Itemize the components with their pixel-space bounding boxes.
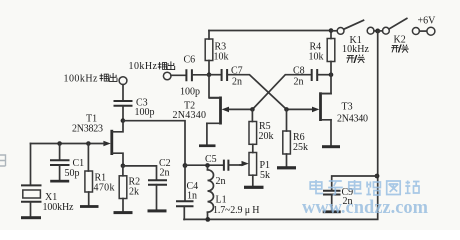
wire K1 right to junction <box>374 30 378 32</box>
capacitor C8 <box>293 66 317 88</box>
capacitor C1 <box>50 158 84 179</box>
wire source node to C2 <box>123 166 157 180</box>
left edge artifact mark <box>0 155 6 166</box>
resistor R3 <box>205 39 228 63</box>
svg-text:10k: 10k <box>214 52 229 63</box>
svg-text:100kHz: 100kHz <box>64 74 99 85</box>
svg-text:C6: C6 <box>184 55 196 66</box>
wire R6 top lead <box>286 109 288 131</box>
resistor R1 <box>85 171 115 194</box>
svg-text:2N4340: 2N4340 <box>173 110 207 121</box>
svg-text:100p: 100p <box>180 87 200 98</box>
wire C4 top lead <box>184 166 186 202</box>
wire R2 to ground <box>122 199 124 212</box>
wire C5 to P1 wiper <box>228 164 240 166</box>
wire C7 to X-cross to T3 gate <box>227 75 313 110</box>
transistor T3 2N4340 <box>312 92 368 124</box>
svg-text:100p: 100p <box>135 107 155 118</box>
wire rail to K1 contact <box>331 30 337 32</box>
label 开/关 (K1) <box>346 55 365 66</box>
wire R5 top lead <box>251 109 253 121</box>
watermark line 1 电子电路图站 <box>310 180 419 195</box>
label 开/关 (K2) <box>391 44 409 55</box>
resistor R2 <box>119 176 140 199</box>
svg-text:/: / <box>398 44 401 55</box>
wire P1 to ground <box>252 175 254 186</box>
wire K2 to +6V terminal <box>420 30 427 32</box>
svg-text:100kHz: 100kHz <box>43 202 75 213</box>
ground T2 <box>199 144 216 147</box>
svg-text:www.cndzz.com: www.cndzz.com <box>302 198 429 218</box>
resistor R6 <box>283 131 308 154</box>
ground R6 <box>277 166 296 169</box>
node top rail / K1 <box>329 28 334 33</box>
terminal 10kHz output <box>129 61 172 80</box>
ground R2 <box>114 211 133 214</box>
svg-text:T3: T3 <box>342 102 353 113</box>
terminal +6V <box>418 16 437 36</box>
node R4/C8/T3-drain <box>329 72 334 77</box>
inductor L1 <box>208 170 260 216</box>
ground T3 <box>322 145 340 148</box>
node R1 top <box>86 141 91 146</box>
svg-text:5k: 5k <box>260 170 270 181</box>
ground R1 <box>80 205 99 208</box>
wire R5 to P1 <box>252 144 254 152</box>
ground X1 <box>21 216 41 219</box>
wire tank node to C5 <box>185 164 224 166</box>
svg-text:10kHz: 10kHz <box>342 44 370 55</box>
wire terminal to C3 <box>122 85 124 101</box>
wire R1 top lead <box>87 144 89 172</box>
terminal 100kHz output <box>64 74 127 85</box>
svg-text:1.7~2.9 μ H: 1.7~2.9 μ H <box>213 205 260 216</box>
svg-text:20k: 20k <box>259 131 274 142</box>
node T3 gate / R6 top <box>284 107 289 112</box>
capacitor C9 <box>323 187 353 207</box>
node tank top C4/L1/C5 <box>183 163 188 168</box>
wire R4 bottom lead <box>330 62 332 75</box>
wire L1 top lead <box>207 165 209 169</box>
svg-text:C5: C5 <box>205 154 217 165</box>
wire T3 source to ground <box>330 120 332 145</box>
label 输出 (10kHz) <box>158 61 175 69</box>
svg-text:2n: 2n <box>160 168 170 179</box>
capacitor C5 <box>205 154 228 187</box>
node K1/K2 junction <box>375 29 380 34</box>
wire junction to K2 contact <box>378 30 383 32</box>
node R3/C6/C7/T2-drain <box>207 72 212 77</box>
wire C8 to R4 node <box>317 74 331 76</box>
wire supply junction down right side <box>184 31 378 219</box>
node L1 top <box>205 163 210 168</box>
svg-text:10k: 10k <box>309 52 324 63</box>
wire R4 top lead <box>330 31 332 39</box>
svg-text:+6V: +6V <box>418 16 437 27</box>
wire R3 top lead <box>208 31 210 40</box>
wire C1 to ground <box>59 165 61 180</box>
wire gate bus X1/C1/R1 to T1 gate <box>31 143 105 145</box>
crystal X1 100kHz <box>21 185 74 213</box>
wire R2 top lead <box>122 166 124 176</box>
svg-text:2n: 2n <box>216 176 226 187</box>
wire C8 left to X-cross to T2 gate <box>228 75 312 110</box>
ground C1 <box>50 180 69 183</box>
svg-text:50p: 50p <box>65 168 80 179</box>
wire L1 bottom to rail <box>207 212 209 219</box>
svg-text:2N3823: 2N3823 <box>72 124 103 135</box>
capacitor C4 <box>176 181 198 206</box>
wire X1 top lead <box>30 144 32 186</box>
ground C2 <box>148 209 167 212</box>
svg-text:/: / <box>354 55 357 66</box>
node L1 bottom rail <box>205 217 210 222</box>
wire R1 to ground <box>88 192 90 205</box>
label 输出 (100kHz) <box>100 73 118 82</box>
svg-text:10kHz: 10kHz <box>129 61 158 72</box>
capacitor C2 <box>148 158 171 185</box>
wire R6 to ground <box>286 154 288 166</box>
wire C9 to ground <box>331 195 333 211</box>
wire top supply rail <box>209 30 331 32</box>
transistor T1 2N3823 <box>72 114 123 166</box>
transistor T2 2N4340 <box>173 97 230 125</box>
svg-text:2n: 2n <box>232 77 242 88</box>
ground P1 <box>244 186 264 189</box>
capacitor C3 <box>114 98 155 119</box>
node C1 top <box>57 141 62 146</box>
wire C9 tap to C9 <box>332 176 377 190</box>
resistor R5 <box>249 121 274 144</box>
wire X1 to ground <box>30 202 32 217</box>
ground C9 <box>323 210 341 213</box>
capacitor C7 <box>222 66 243 88</box>
switch K2 <box>383 18 420 45</box>
wire C2 to ground <box>156 185 158 210</box>
svg-text:470k: 470k <box>94 183 115 194</box>
svg-text:2n: 2n <box>294 77 304 88</box>
wire C1 top lead <box>59 144 61 161</box>
wire C4 bottom to rail <box>183 206 185 219</box>
wire T2 source to ground <box>206 123 208 144</box>
switch K1 <box>337 20 374 55</box>
potentiometer P1 <box>240 153 270 182</box>
wire node to C7 <box>209 74 221 76</box>
watermark line 2 www.cndzz.com <box>302 198 429 218</box>
resistor R4 <box>309 39 335 63</box>
svg-text:2N4340: 2N4340 <box>337 114 368 125</box>
node T2 gate / R5 top <box>250 107 255 112</box>
wire R3 bottom to node <box>208 61 210 75</box>
node C9 tap <box>375 174 380 179</box>
svg-text:1n: 1n <box>187 191 197 202</box>
wire C3 to T1 drain node <box>122 106 124 121</box>
wire drain node to tank corner <box>123 121 185 166</box>
wire node to T3 drain <box>322 75 331 94</box>
capacitor C6 <box>180 55 200 98</box>
wire C6 to node <box>192 74 209 76</box>
wire node to T2 drain <box>209 75 219 98</box>
svg-text:C8: C8 <box>293 66 305 77</box>
node T1 drain / C3 / tank feed <box>121 118 126 123</box>
wire terminal to C6 <box>171 74 186 76</box>
svg-text:25k: 25k <box>293 142 308 153</box>
svg-text:2k: 2k <box>129 187 139 198</box>
node T1 source / R2 / C2 <box>121 164 126 169</box>
